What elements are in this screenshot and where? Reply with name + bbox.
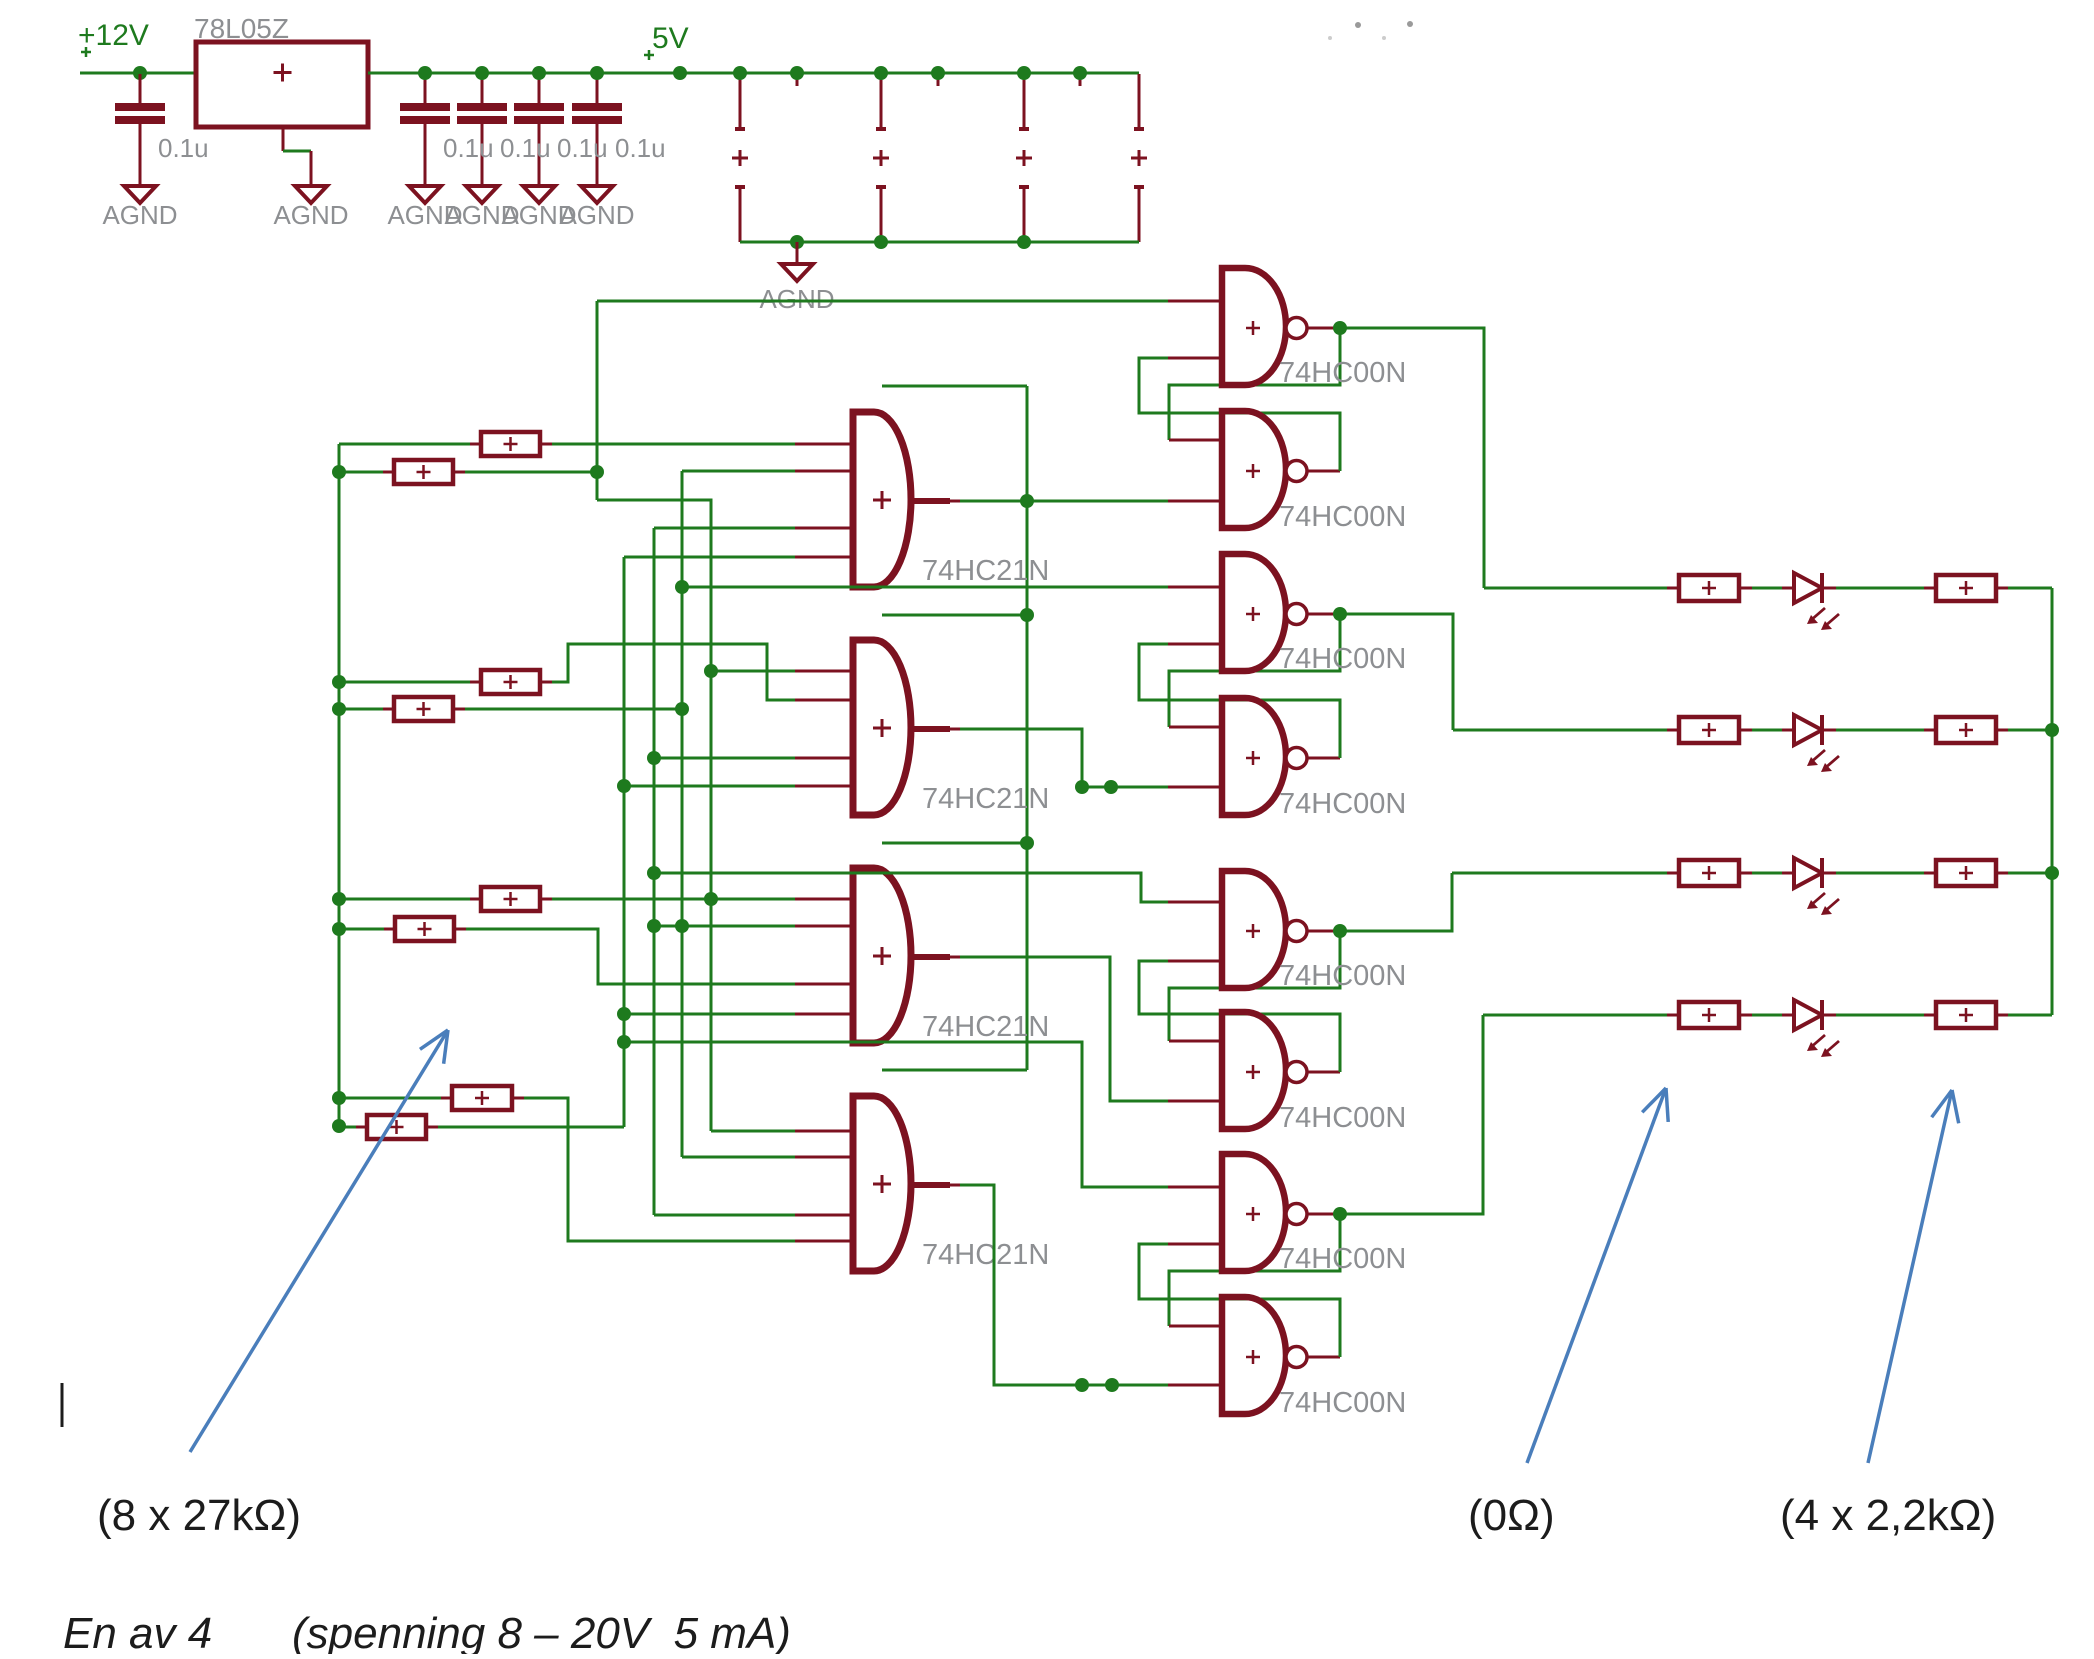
svg-text:74HC00N: 74HC00N <box>1279 1387 1406 1419</box>
svg-text:En av 4: En av 4 <box>63 1609 212 1654</box>
svg-text:74HC00N: 74HC00N <box>1279 643 1406 675</box>
svg-text:74HC21N: 74HC21N <box>922 1239 1049 1271</box>
svg-text:74HC21N: 74HC21N <box>922 1011 1049 1043</box>
svg-text:74HC00N: 74HC00N <box>1279 357 1406 389</box>
svg-text:0.1u: 0.1u <box>443 133 494 163</box>
svg-text:74HC21N: 74HC21N <box>922 555 1049 587</box>
svg-text:74HC21N: 74HC21N <box>922 783 1049 815</box>
svg-text:0.1u: 0.1u <box>158 133 209 163</box>
svg-text:74HC00N: 74HC00N <box>1279 1243 1406 1275</box>
svg-text:74HC00N: 74HC00N <box>1279 788 1406 820</box>
svg-text:74HC00N: 74HC00N <box>1279 501 1406 533</box>
svg-text:74HC00N: 74HC00N <box>1279 960 1406 992</box>
svg-text:AGND: AGND <box>559 200 634 230</box>
svg-text:78L05Z: 78L05Z <box>194 13 289 44</box>
svg-text:0.1u: 0.1u <box>500 133 551 163</box>
svg-text:AGND: AGND <box>102 200 177 230</box>
svg-text:AGND: AGND <box>759 284 834 314</box>
svg-text:74HC00N: 74HC00N <box>1279 1102 1406 1134</box>
svg-text:(4 x 2,2kΩ): (4 x 2,2kΩ) <box>1780 1491 1996 1540</box>
svg-text:+12V: +12V <box>78 19 149 52</box>
svg-text:AGND: AGND <box>273 200 348 230</box>
svg-text:(spenning 8 – 20V 5 mA): (spenning 8 – 20V 5 mA) <box>292 1609 791 1654</box>
svg-text:0.1u: 0.1u <box>557 133 608 163</box>
svg-text:(0Ω): (0Ω) <box>1468 1491 1555 1540</box>
svg-text:5V: 5V <box>652 22 689 55</box>
svg-text:(8 x 27kΩ): (8 x 27kΩ) <box>97 1491 301 1540</box>
svg-text:0.1u: 0.1u <box>615 133 666 163</box>
